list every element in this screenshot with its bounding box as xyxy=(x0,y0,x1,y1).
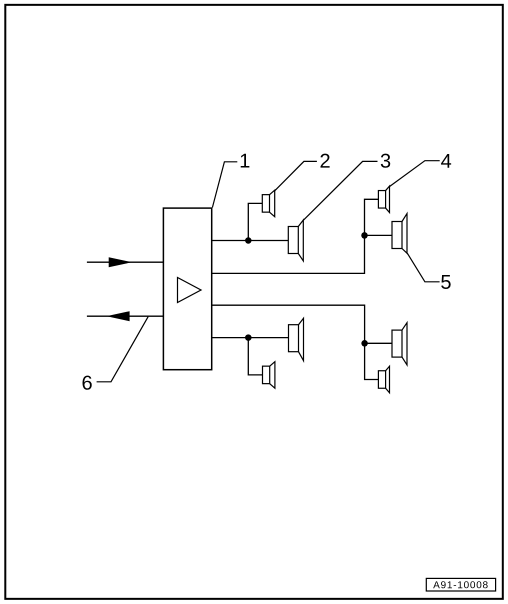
label 5 xyxy=(441,275,450,289)
midrange speaker 5 (front-right) xyxy=(392,214,407,254)
wire: junction to front-right speaker xyxy=(365,234,393,236)
wire: amp output 1 to front-left speakers xyxy=(212,240,289,242)
junction dot rear-left xyxy=(245,334,252,341)
leader line 1 xyxy=(212,162,237,208)
leader line 2 xyxy=(275,161,317,190)
wire: amp output 3 down to rear-right tweeter xyxy=(212,305,379,379)
figure number box A91-10008 xyxy=(426,578,495,591)
wire: branch to front-left tweeter xyxy=(248,203,262,240)
tweeter 4 (front-right) xyxy=(378,186,389,213)
junction dot rear-right xyxy=(361,340,368,347)
leader line 3 xyxy=(303,161,377,220)
amplifier 1 (control unit box) xyxy=(163,208,211,370)
label 1 xyxy=(241,154,250,168)
label 2 xyxy=(321,154,330,168)
rear-left midrange speaker xyxy=(289,318,304,360)
leader line 4 xyxy=(389,161,439,187)
input wire with arrow (top) xyxy=(87,258,163,267)
midrange speaker 3 (front-left) xyxy=(288,220,303,261)
wire: junction to rear-right speaker xyxy=(365,342,392,344)
junction dot front-left xyxy=(245,237,252,244)
label 6 xyxy=(83,376,92,390)
wire: branch to rear-left tweeter xyxy=(248,338,262,375)
wire: amp output 2 up to front-right tweeter xyxy=(212,199,379,273)
rear-right tweeter xyxy=(378,366,389,393)
label 4 xyxy=(441,154,451,168)
label 3 xyxy=(381,154,390,168)
wire: amp output 4 to rear-left speakers xyxy=(212,337,289,339)
output wire with arrow (bottom input line, item 6) xyxy=(87,312,163,321)
rear-right midrange speaker xyxy=(392,323,407,365)
rear-left tweeter xyxy=(263,362,275,389)
junction dot front-right xyxy=(361,232,368,239)
leader line 6 xyxy=(97,317,149,382)
tweeter 2 (front-left) xyxy=(262,190,274,217)
leader line 5 xyxy=(407,253,439,282)
